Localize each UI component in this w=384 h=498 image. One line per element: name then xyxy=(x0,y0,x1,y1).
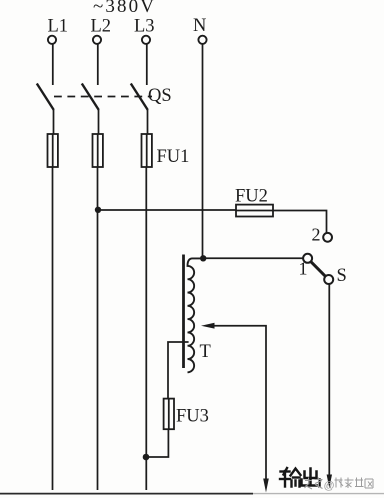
wire FU2 to contact 2 xyxy=(273,211,327,233)
svg-text:FU1: FU1 xyxy=(157,147,190,167)
terminal L1 xyxy=(48,36,56,44)
terminal L3 xyxy=(142,36,150,44)
wire L1 main drop xyxy=(52,167,54,490)
fuse FU3 xyxy=(164,399,174,430)
transformer T core xyxy=(182,255,185,369)
switch QS pole 2 blade xyxy=(82,84,99,111)
svg-text:1: 1 xyxy=(299,259,308,279)
node junction on L3 xyxy=(143,454,150,461)
fuse FU1 element c xyxy=(142,134,152,167)
wire N vertical run xyxy=(202,44,204,258)
output arrowhead right xyxy=(327,475,332,489)
terminal L2 xyxy=(93,36,101,44)
wire L3 main drop xyxy=(145,167,147,490)
wire FU2 branch from L2 xyxy=(98,209,237,211)
svg-text:@: @ xyxy=(324,480,335,492)
wire wiper tap to output xyxy=(214,326,266,479)
svg-text:L1: L1 xyxy=(48,17,69,37)
output arrowhead left xyxy=(263,479,269,493)
contact 2 terminal xyxy=(323,233,332,242)
fuse FU1 element b xyxy=(93,134,103,167)
scan artifact bottom rule xyxy=(0,493,253,495)
wire pole2 to fuse xyxy=(98,110,100,134)
fuse FU1 element a xyxy=(48,134,58,167)
label output 输 (hand-drawn) xyxy=(280,468,301,487)
wire L3 drop to switch xyxy=(146,44,148,85)
fuse FU2 xyxy=(236,205,273,217)
wire FU3 to L3 xyxy=(146,429,168,457)
svg-text:QS: QS xyxy=(148,86,172,106)
watermark 头条@机械知网 (approximation) xyxy=(305,478,374,490)
switch S blade xyxy=(311,262,326,277)
svg-text:2: 2 xyxy=(312,225,321,245)
wire fixed tap to FU3 xyxy=(168,342,189,399)
contact 1 terminal xyxy=(303,254,312,263)
svg-text:L2: L2 xyxy=(91,17,112,37)
switch QS pole 1 blade xyxy=(37,84,54,111)
node junction transformer top xyxy=(200,255,206,261)
switch QS pole 3 blade xyxy=(131,84,148,111)
terminal N xyxy=(198,36,206,44)
svg-text:T: T xyxy=(200,342,211,362)
label output 出 (hand-drawn) xyxy=(302,469,320,486)
svg-text:FU3: FU3 xyxy=(176,407,209,427)
wiper arrowhead xyxy=(201,323,215,329)
svg-text:L3: L3 xyxy=(134,17,155,37)
svg-text:~380V: ~380V xyxy=(93,0,154,17)
wire L1 drop to switch xyxy=(52,44,54,85)
svg-text:FU2: FU2 xyxy=(235,187,268,207)
switch S pole terminal xyxy=(324,275,333,284)
wire pole3 to fuse xyxy=(147,110,149,134)
QS interlock dashed link xyxy=(54,96,152,98)
wire L2 drop to switch xyxy=(97,44,99,85)
svg-text:S: S xyxy=(337,266,347,286)
svg-text:N: N xyxy=(193,16,206,36)
wire pole1 to fuse xyxy=(53,110,55,134)
wire S pole output drop xyxy=(328,284,330,476)
node junction on L2 xyxy=(95,207,101,213)
wire N junction to contact 1 xyxy=(203,257,303,259)
wire L2 main drop xyxy=(97,167,99,490)
transformer T winding xyxy=(188,258,204,372)
